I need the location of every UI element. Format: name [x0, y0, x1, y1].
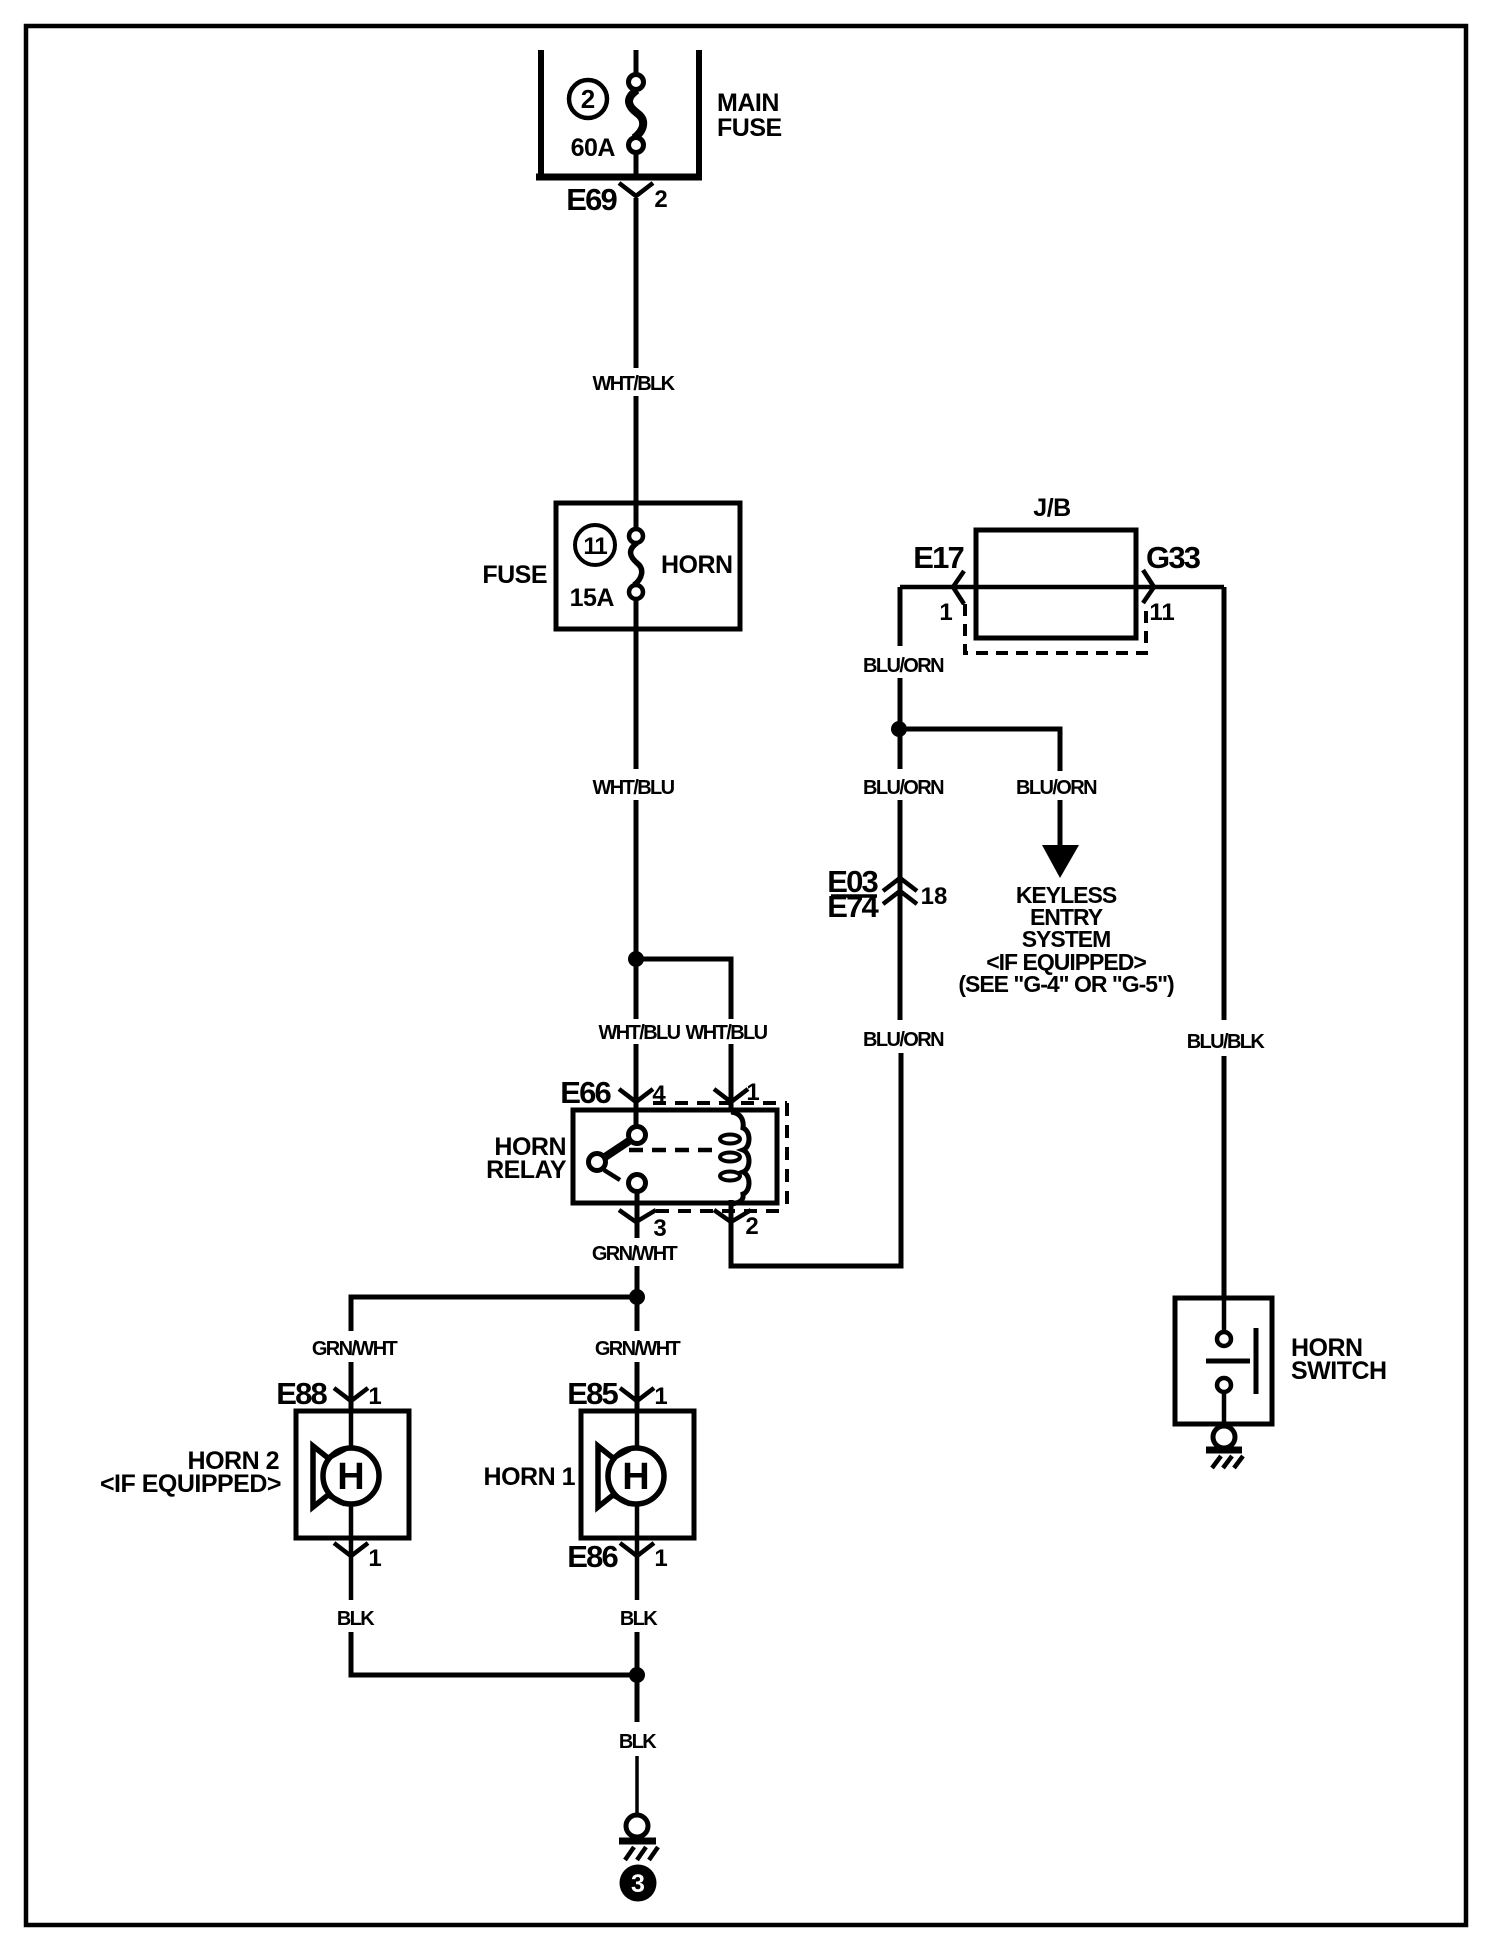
svg-text:WHT/BLU: WHT/BLU	[599, 1022, 681, 1044]
svg-text:1: 1	[939, 599, 952, 626]
svg-text:E86: E86	[567, 1539, 618, 1574]
svg-text:MAIN: MAIN	[717, 89, 779, 117]
svg-text:FUSE: FUSE	[717, 114, 782, 142]
svg-text:H: H	[622, 1456, 649, 1498]
svg-text:WHT/BLU: WHT/BLU	[686, 1022, 768, 1044]
svg-text:2: 2	[654, 186, 667, 213]
svg-text:E66: E66	[560, 1075, 611, 1110]
svg-text:E74: E74	[827, 889, 879, 924]
svg-text:15A: 15A	[570, 584, 615, 612]
svg-text:2: 2	[581, 84, 595, 114]
svg-text:WHT/BLU: WHT/BLU	[593, 777, 675, 799]
svg-text:1: 1	[368, 1545, 381, 1572]
svg-text:E69: E69	[566, 182, 617, 217]
svg-text:GRN/WHT: GRN/WHT	[592, 1243, 678, 1265]
svg-text:GRN/WHT: GRN/WHT	[312, 1338, 398, 1360]
svg-text:BLU/BLK: BLU/BLK	[1187, 1031, 1266, 1053]
svg-text:GRN/WHT: GRN/WHT	[595, 1338, 681, 1360]
svg-text:1: 1	[368, 1383, 381, 1410]
svg-text:60A: 60A	[571, 134, 616, 162]
svg-text:WHT/BLK: WHT/BLK	[593, 373, 676, 395]
svg-text:(SEE "G-4" OR "G-5"): (SEE "G-4" OR "G-5")	[958, 971, 1174, 997]
svg-text:1: 1	[654, 1383, 667, 1410]
svg-text:RELAY: RELAY	[486, 1156, 567, 1184]
svg-text:<IF EQUIPPED>: <IF EQUIPPED>	[100, 1470, 281, 1498]
svg-text:2: 2	[745, 1213, 758, 1240]
svg-text:BLK: BLK	[337, 1608, 375, 1630]
svg-text:BLU/ORN: BLU/ORN	[863, 655, 944, 677]
svg-text:BLU/ORN: BLU/ORN	[1016, 777, 1097, 799]
svg-text:FUSE: FUSE	[482, 561, 547, 589]
svg-text:E17: E17	[913, 540, 963, 575]
svg-text:BLK: BLK	[619, 1731, 657, 1753]
svg-text:3: 3	[631, 1870, 645, 1898]
svg-text:G33: G33	[1146, 540, 1201, 575]
svg-text:11: 11	[1149, 599, 1174, 626]
svg-text:E85: E85	[567, 1376, 618, 1411]
svg-text:HORN: HORN	[661, 551, 733, 579]
svg-text:HORN 1: HORN 1	[484, 1463, 576, 1491]
svg-text:SWITCH: SWITCH	[1291, 1357, 1387, 1385]
svg-text:1: 1	[654, 1545, 667, 1572]
svg-text:BLU/ORN: BLU/ORN	[863, 1029, 944, 1051]
svg-text:BLK: BLK	[620, 1608, 658, 1630]
svg-text:J/B: J/B	[1033, 494, 1070, 522]
svg-text:BLU/ORN: BLU/ORN	[863, 777, 944, 799]
svg-text:E88: E88	[276, 1376, 327, 1411]
svg-text:11: 11	[583, 533, 607, 560]
svg-text:3: 3	[653, 1215, 666, 1242]
svg-text:H: H	[337, 1456, 364, 1498]
svg-text:18: 18	[921, 883, 948, 910]
